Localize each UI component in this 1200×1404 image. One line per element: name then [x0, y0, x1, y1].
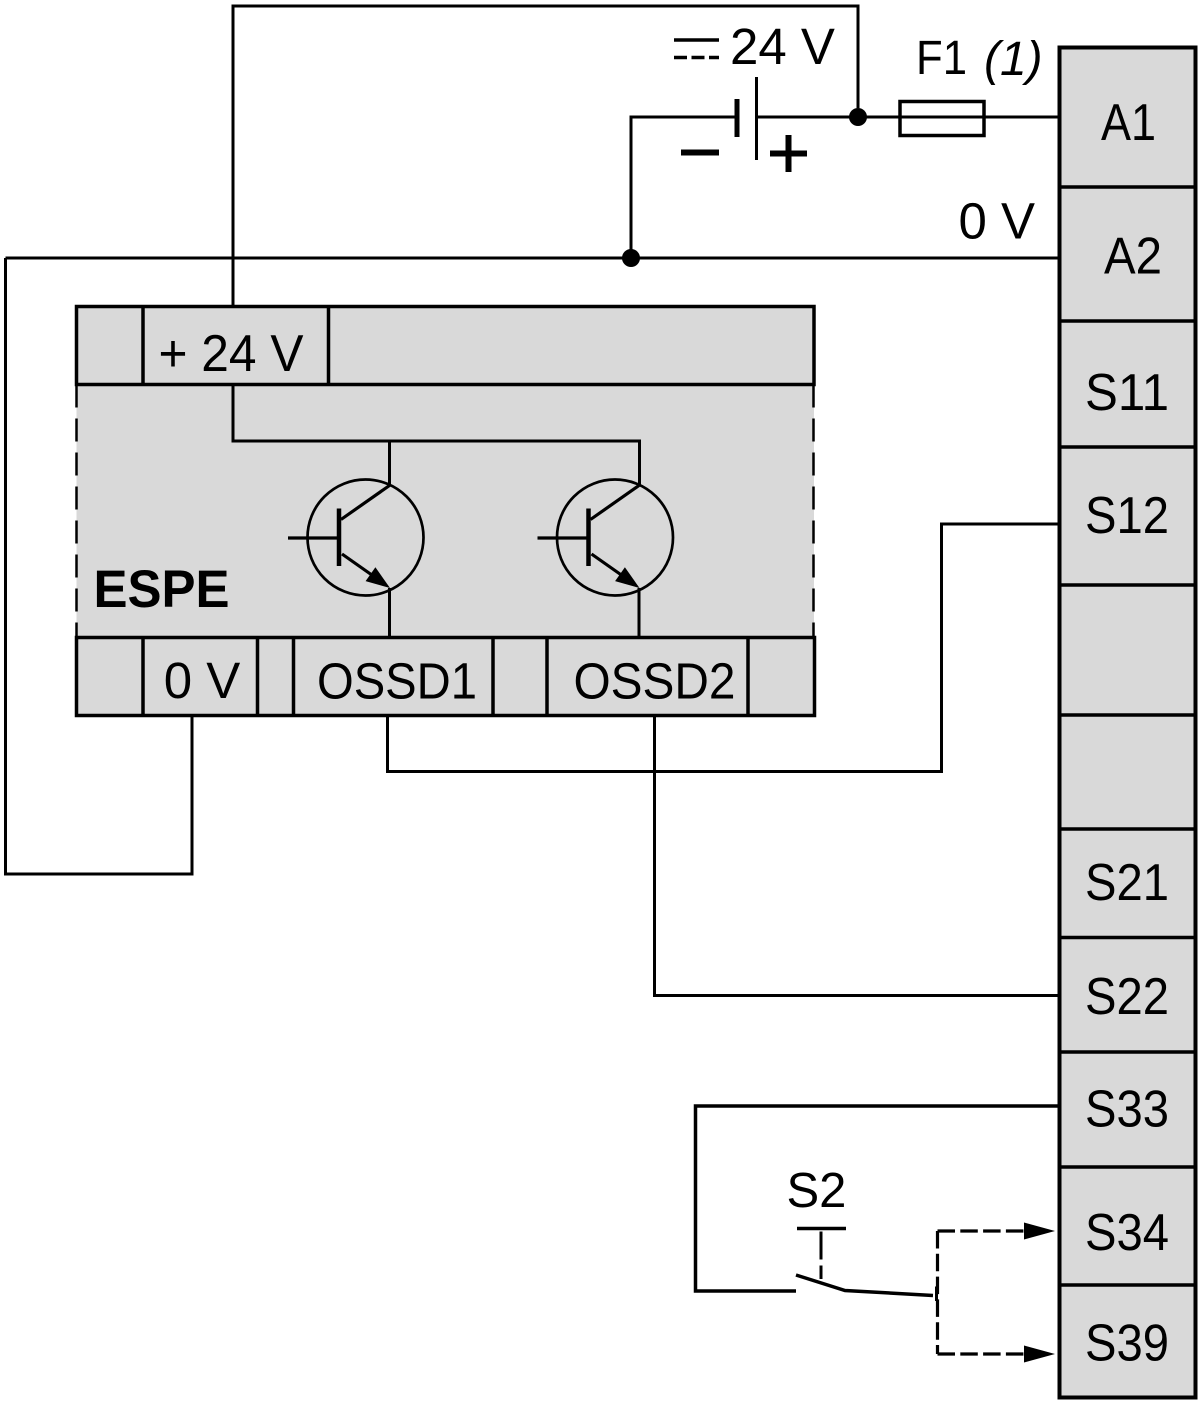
node junction dot at battery positive rail: [849, 108, 867, 126]
wire T1 collector tap: [388, 441, 391, 486]
fuse F1: [900, 102, 984, 136]
switch S2: [787, 1164, 937, 1301]
svg-text:S34: S34: [1085, 1204, 1169, 1262]
dashed vertical linkage line: [936, 1231, 939, 1354]
wire S33 to switch S2: [696, 1106, 1060, 1291]
svg-text:S11: S11: [1085, 364, 1169, 422]
wire OSSD1 to S12: [388, 524, 1060, 772]
dashed link to S34 with arrow: [938, 1229, 1025, 1232]
ESPE body: [77, 385, 815, 638]
wire battery negative to 0V line: [631, 117, 737, 258]
svg-text:S33: S33: [1085, 1081, 1169, 1139]
svg-text:S2: S2: [787, 1164, 847, 1218]
battery negative plate: [735, 99, 740, 137]
ESPE dashed left border: [75, 385, 78, 638]
wire left return loop to ESPE 0V: [6, 258, 193, 874]
S2 lever end tick: [935, 1287, 938, 1302]
dashed link to S39 with arrow: [938, 1352, 1025, 1355]
S2 actuator bar: [797, 1227, 846, 1231]
transistor Q2 (OSSD2 output): [538, 480, 674, 640]
wire 0V line to A2 terminal: [6, 257, 1060, 260]
DC symbol: [674, 38, 719, 42]
ESPE bottom terminal bar: [77, 638, 815, 716]
wire top loop from ESPE +24V up and over to battery junction: [233, 6, 858, 306]
wire battery plus to A1 terminal: [858, 116, 1060, 119]
battery plus sign: [770, 151, 807, 157]
ESPE top terminal bar: [77, 307, 815, 385]
svg-text:24 V: 24 V: [730, 18, 835, 75]
svg-text:F1: F1: [916, 32, 967, 85]
wire OSSD2 to S22: [655, 716, 1060, 996]
battery positive plate: [755, 77, 758, 160]
svg-text:S22: S22: [1085, 968, 1169, 1026]
battery minus sign: [681, 150, 719, 156]
wire battery positive plate to junction: [757, 116, 858, 119]
node junction dot on 0V line: [622, 249, 640, 267]
S2 actuator linkage dashed: [820, 1232, 823, 1280]
svg-text:S12: S12: [1085, 487, 1169, 545]
transistor Q1 (OSSD1 output): [288, 480, 424, 640]
battery 24V: [674, 18, 835, 172]
svg-text:A1: A1: [1101, 94, 1156, 152]
svg-text:OSSD2: OSSD2: [574, 653, 736, 710]
svg-text:A2: A2: [1104, 228, 1162, 286]
svg-text:S39: S39: [1085, 1315, 1169, 1373]
svg-text:S21: S21: [1085, 854, 1169, 912]
svg-text:OSSD1: OSSD1: [317, 653, 477, 710]
svg-text:0 V: 0 V: [164, 652, 241, 709]
S2 contact lever: [796, 1275, 933, 1296]
terminal block column: [1058, 48, 1198, 1398]
ESPE dashed right border: [812, 385, 815, 638]
svg-text:+ 24 V: + 24 V: [159, 325, 304, 383]
svg-text:ESPE: ESPE: [94, 560, 230, 619]
svg-text:(1): (1): [984, 33, 1043, 86]
wire +24V down inside ESPE to transistor collectors: [233, 385, 640, 486]
svg-text:0 V: 0 V: [958, 193, 1035, 250]
